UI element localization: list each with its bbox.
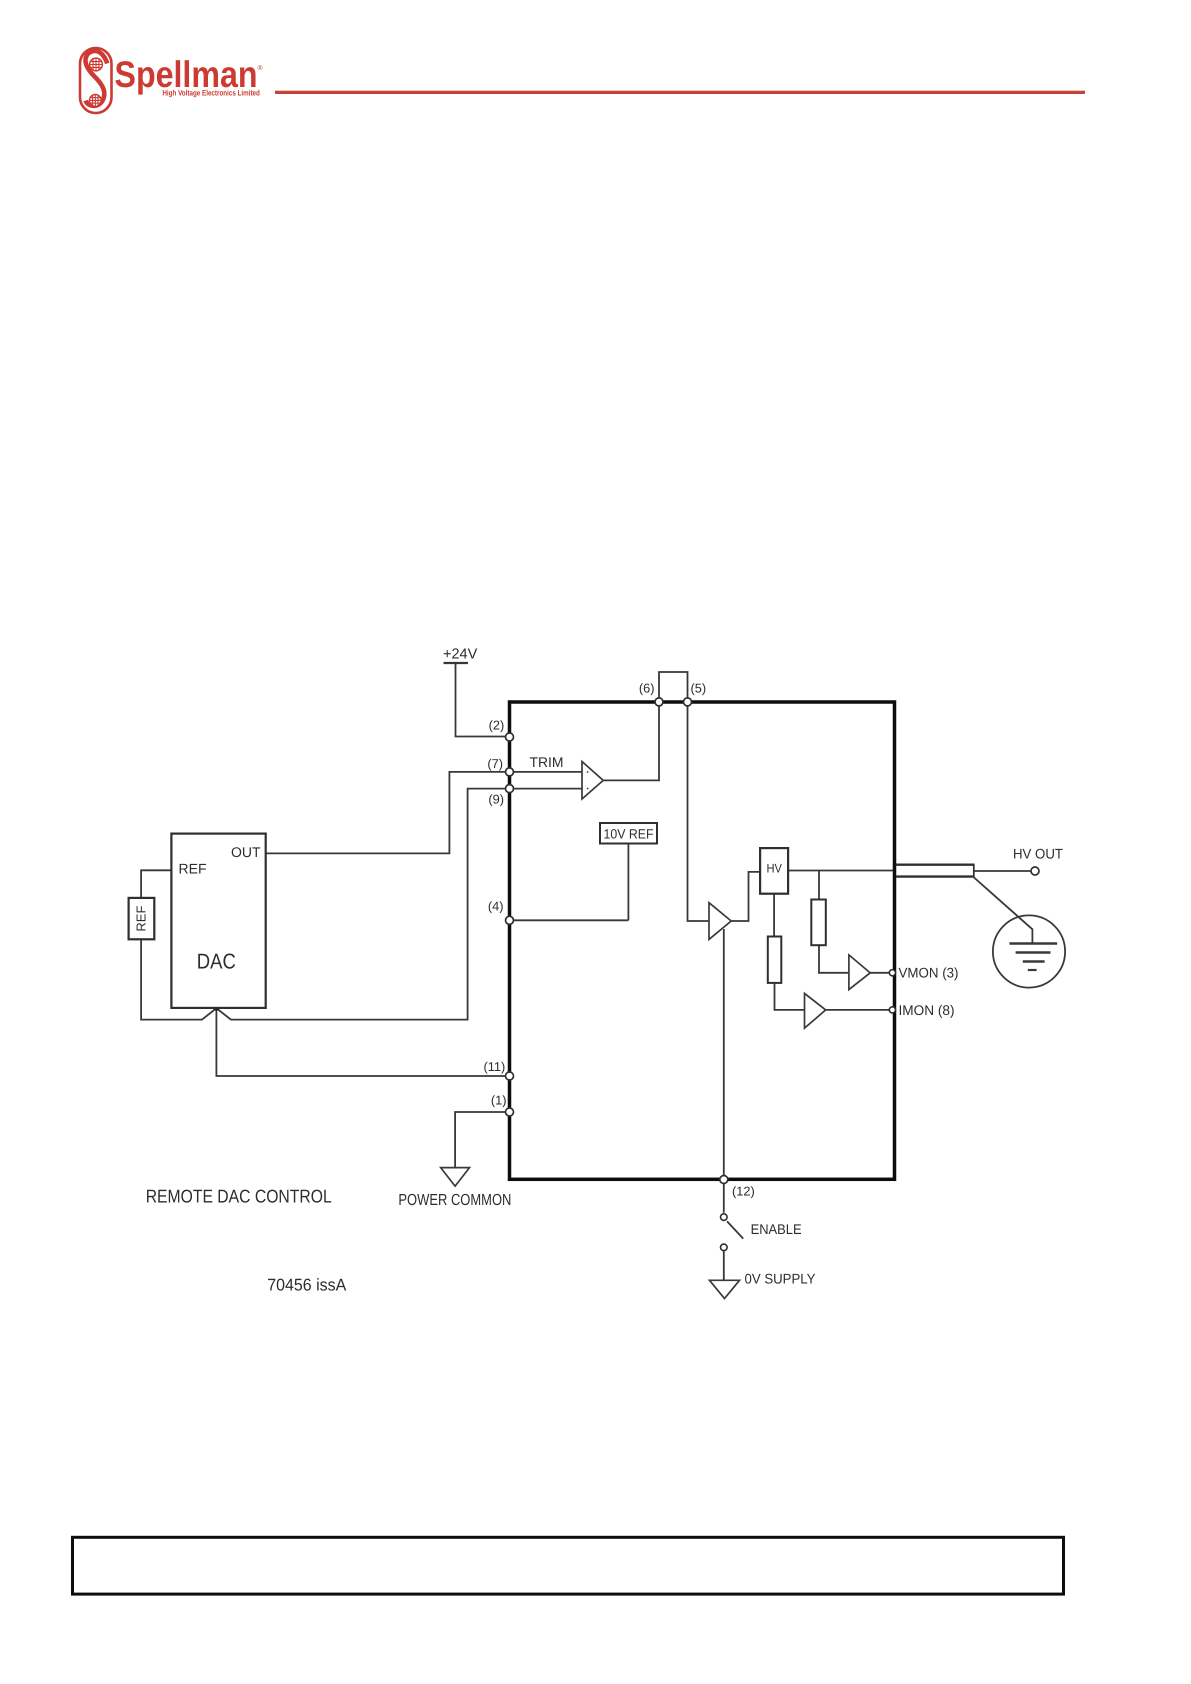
svg-text:+24V: +24V — [443, 647, 478, 663]
Spellman logo S swash — [85, 51, 107, 106]
svg-text:REF: REF — [179, 860, 207, 876]
+24V supply bar — [444, 662, 469, 664]
10V REF block — [600, 823, 657, 844]
svg-text:70456 issA: 70456 issA — [267, 1276, 347, 1295]
wire pin 4 to 10V REF — [514, 919, 629, 921]
svg-text:10V REF: 10V REF — [604, 827, 654, 842]
resistor IMON shunt — [768, 937, 782, 983]
wire pin 12 to enable switch — [723, 1184, 725, 1213]
wire IMON amp output to pin 8 — [826, 1009, 890, 1011]
terminal HV OUT — [1031, 867, 1039, 875]
wire IMON resistor to IMON amp — [775, 983, 805, 1010]
wire DAC bottom to pin 11 — [216, 1008, 505, 1076]
DAC block U1 — [171, 834, 265, 1008]
terminal pin 2 — [506, 733, 514, 741]
op-amp VMON buffer — [849, 955, 870, 990]
terminal pin 9 — [506, 785, 514, 793]
svg-text:(9): (9) — [488, 792, 504, 807]
svg-text:OUT: OUT — [231, 844, 261, 860]
wire pin 9 to TRIM amp input — [510, 788, 583, 790]
wire HV block bottom to IMON resistor — [773, 894, 775, 937]
svg-text:HV: HV — [766, 861, 782, 875]
wire pin 7 to TRIM amp input — [510, 771, 583, 773]
svg-text:(5): (5) — [691, 681, 707, 696]
wire coax shield to earth electrode — [974, 878, 1032, 943]
svg-text:VMON (3): VMON (3) — [899, 964, 959, 980]
op-amp TRIM buffer — [582, 762, 603, 800]
svg-text:POWER COMMON: POWER COMMON — [398, 1192, 511, 1209]
svg-text:ENABLE: ENABLE — [751, 1221, 802, 1237]
wire VMON amp output to pin 3 — [870, 972, 889, 974]
enable switch contact bottom — [721, 1244, 728, 1251]
svg-text:(7): (7) — [487, 756, 503, 771]
wire junction down to VMON divider resistor — [818, 871, 820, 900]
ground 0V supply — [710, 1280, 740, 1298]
wire TRIM amp output to pin 6 — [603, 702, 659, 780]
svg-text:REMOTE DAC CONTROL: REMOTE DAC CONTROL — [146, 1186, 332, 1207]
wire switch to 0V supply ground — [723, 1251, 725, 1280]
wire REF resistor bottom to pin 9 with hop over DAC input — [141, 789, 505, 1020]
wire HV block output to box edge — [788, 870, 894, 872]
svg-text:(12): (12) — [732, 1184, 755, 1199]
svg-text:®: ® — [258, 65, 264, 72]
wire pin 1 to power common ground — [455, 1112, 505, 1168]
terminal pin 7 — [506, 768, 514, 776]
svg-text:REF: REF — [134, 906, 149, 932]
junction dot DAC input — [214, 1006, 219, 1011]
svg-text:(1): (1) — [491, 1093, 507, 1108]
svg-text:HV OUT: HV OUT — [1013, 846, 1063, 862]
jumper bridge pin 6 to pin 5 — [659, 672, 688, 698]
HV block — [760, 848, 788, 894]
earth ground symbol — [1009, 944, 1057, 971]
wire enable amp output to HV block — [731, 872, 760, 921]
earth electrode circle — [993, 915, 1065, 987]
terminal VMON pin 3 — [889, 970, 895, 976]
terminal pin 5 — [684, 698, 692, 706]
logo bottom globe — [89, 95, 101, 107]
terminal pin 4 — [506, 916, 514, 924]
op-amp TRIM input marks — [587, 771, 589, 773]
svg-text:DAC: DAC — [197, 949, 236, 973]
terminal pin 12 — [720, 1176, 728, 1184]
terminal pin 1 — [506, 1108, 514, 1116]
svg-text:0V SUPPLY: 0V SUPPLY — [745, 1270, 817, 1286]
svg-text:IMON (8): IMON (8) — [899, 1002, 955, 1018]
red header rule — [275, 91, 1085, 94]
enable switch arm — [727, 1221, 743, 1238]
wire DAC REF pin to REF resistor top — [141, 870, 171, 898]
main module box — [510, 702, 895, 1179]
footer box — [73, 1537, 1064, 1594]
svg-text:(11): (11) — [483, 1059, 505, 1074]
svg-text:(4): (4) — [488, 899, 504, 914]
svg-text:(6): (6) — [639, 681, 655, 696]
resistor VMON divider — [811, 900, 826, 946]
Spellman logo emblem capsule — [80, 48, 112, 113]
svg-text:TRIM: TRIM — [530, 754, 564, 770]
op-amp IMON buffer — [805, 993, 826, 1028]
wire enable net down to pin 12 — [723, 929, 725, 1178]
wire VMON resistor to VMON amp — [819, 945, 849, 973]
resistor REF — [129, 898, 155, 939]
wire DAC OUT to pin 7 — [266, 772, 505, 854]
svg-text:High Voltage Electronics Limit: High Voltage Electronics Limited — [162, 89, 260, 98]
enable switch contact top — [721, 1214, 728, 1221]
logo top globe — [90, 58, 103, 71]
wire +24V down to pin 2 — [456, 663, 506, 737]
terminal IMON pin 8 — [889, 1007, 895, 1013]
wire 10V REF box down — [627, 844, 629, 921]
HV OUT coaxial lead — [896, 864, 974, 866]
wire coax end to HV OUT terminal — [974, 870, 1031, 872]
terminal pin 6 — [655, 698, 663, 706]
terminal pin 11 — [506, 1072, 514, 1080]
op-amp enable buffer — [709, 903, 731, 940]
wire pin 5 down to enable amp input — [688, 702, 710, 921]
svg-text:(2): (2) — [489, 718, 505, 733]
ground power common — [441, 1168, 470, 1187]
